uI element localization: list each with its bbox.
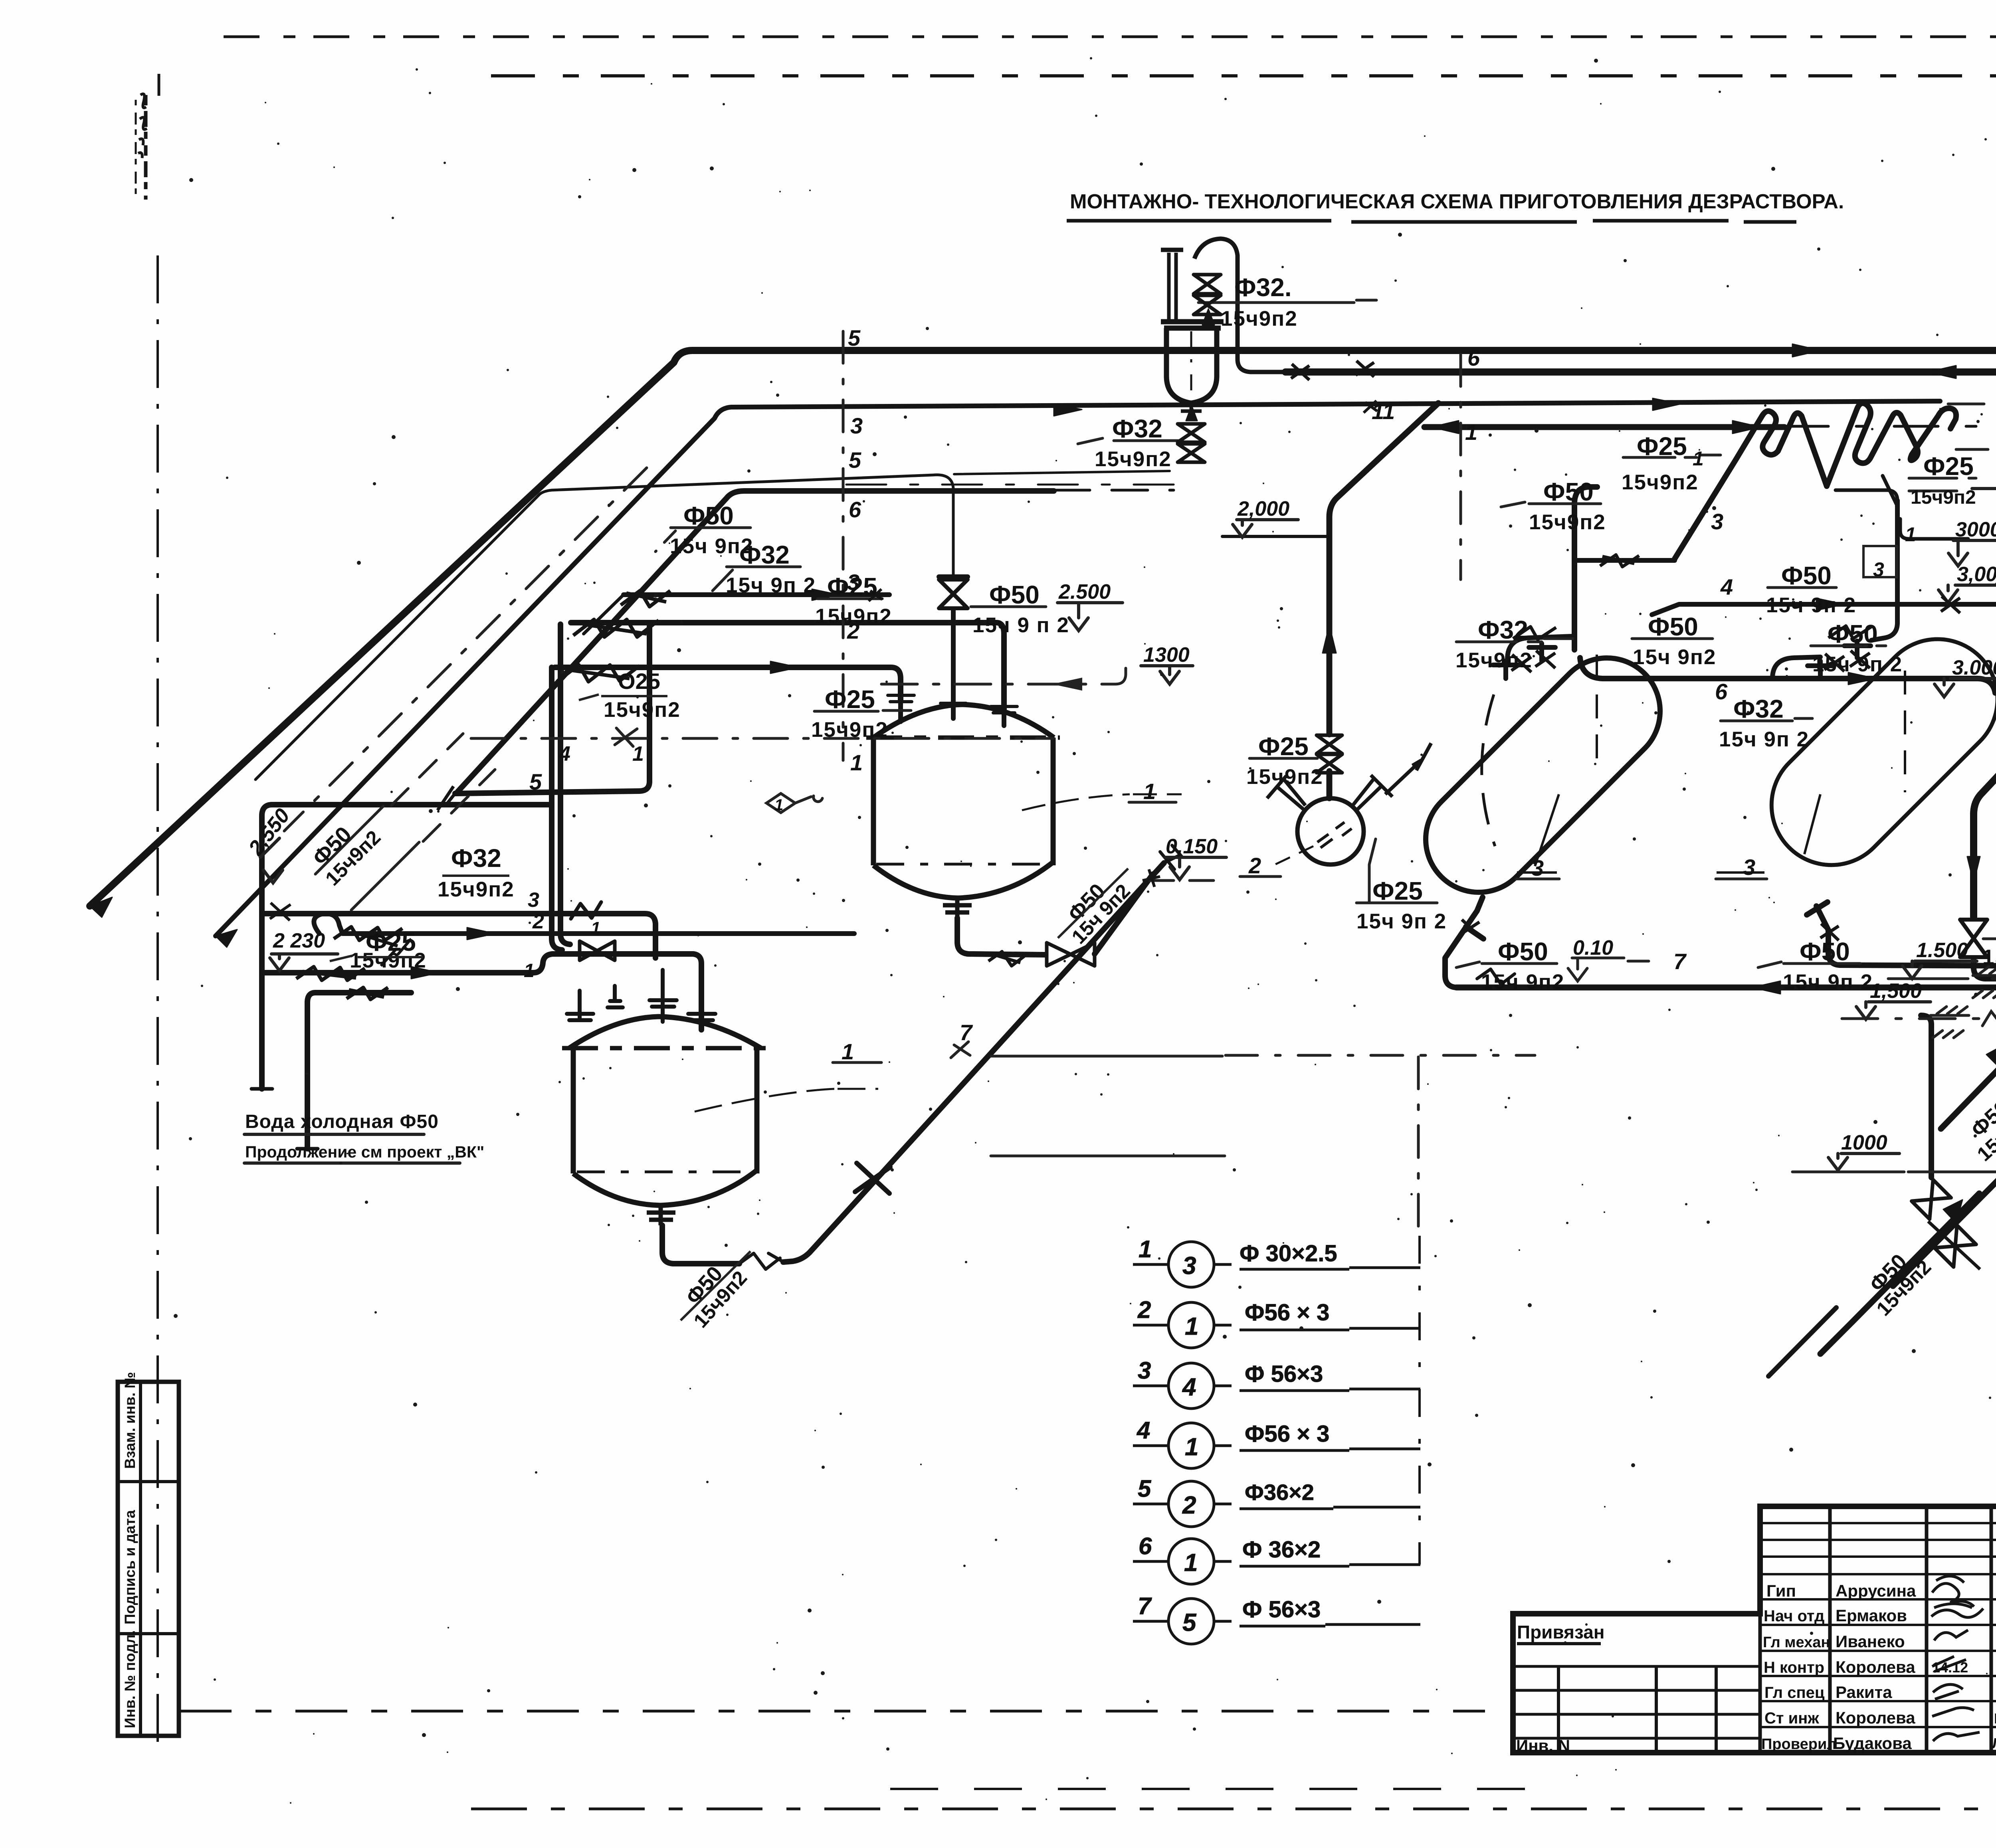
tank1 outlet valve horizontal (1047, 943, 1095, 966)
svg-text:Ф56 × 3: Ф56 × 3 (1245, 1421, 1329, 1447)
V1 shcheloch riser valve (1960, 920, 1987, 957)
svg-text:2,000: 2,000 (1237, 497, 1289, 520)
fraction bar phi32 funnel top (1198, 300, 1376, 303)
svg-text:Нач отд: Нач отд (1764, 1607, 1824, 1625)
y1401 line w break to diagonal (1574, 558, 1675, 563)
1-line y2437 with jog to valve and riser x1757 (264, 954, 701, 1030)
privyazan underline (1517, 1642, 1601, 1645)
svg-text:1.500: 1.500 (1916, 939, 1968, 962)
inner top dashed border (491, 74, 1996, 77)
svg-text:15ч 9п2: 15ч 9п2 (1633, 645, 1716, 669)
label 3 underlines cyl (1516, 878, 1767, 880)
elevation 0.100 collector (1568, 958, 1649, 981)
svg-text:Н контр: Н контр (1764, 1659, 1824, 1676)
small crossed marks on left lines (270, 903, 411, 966)
svg-text:5: 5 (849, 447, 861, 473)
line y1068 heavy (1424, 424, 1784, 430)
svg-text:Ф56 × 3: Ф56 × 3 (1245, 1300, 1329, 1326)
svg-text:15ч9п2: 15ч9п2 (604, 698, 681, 722)
svg-text:15ч9п2: 15ч9п2 (350, 949, 427, 972)
funnel bottom stub (1181, 403, 1202, 420)
tank2 label-1 underline (833, 1061, 881, 1064)
cyl A top left feed elbow (1507, 636, 1573, 659)
fraction bar phi25 funnel line (814, 710, 911, 711)
fraction bar phi25 pump (1249, 757, 1317, 760)
svg-text:Ф50: Ф50 (989, 580, 1040, 609)
svg-text:15ч9п2: 15ч9п2 (1095, 447, 1172, 471)
svg-text:Ф50: Ф50 (1648, 612, 1698, 641)
svg-text:Ракита: Ракита (1836, 1683, 1892, 1702)
svg-text:14.12: 14.12 (1932, 1659, 1968, 1676)
legend row 4 (1133, 1446, 1420, 1450)
marks near step line (1941, 596, 1960, 613)
svg-text:Ф50: Ф50 (1781, 561, 1832, 590)
svg-text:Ф32: Ф32 (1478, 615, 1528, 644)
svg-text:Ф25: Ф25 (1372, 877, 1423, 905)
main B1: the 3-line from LD2 across to the right (216, 401, 1940, 936)
left hook bottom tick (251, 1087, 272, 1091)
elevation 3.000 (1939, 585, 1996, 603)
svg-text:15ч 9п 2: 15ч 9п 2 (1356, 910, 1447, 933)
fraction bar phi50 collector left (1456, 962, 1557, 968)
svg-text:15ч9п2: 15ч9п2 (1529, 510, 1606, 534)
riser flow arrow (1323, 625, 1336, 653)
line 3-small left stub diagonal (584, 595, 624, 634)
7-diagonal long line from tank2 outlet up right (662, 863, 1164, 1264)
svg-text:5: 5 (1138, 1475, 1152, 1502)
cyl A top pipes and stubs (1493, 643, 1555, 679)
outer top dashed border (224, 36, 1996, 38)
title underline (1067, 221, 1796, 222)
measuring funnel tank (top) tube (1169, 253, 1176, 322)
svg-text:15ч 9п 2: 15ч 9п 2 (1812, 653, 1903, 676)
funnel tube cap (1161, 248, 1183, 252)
valve on 1-line jog (580, 941, 615, 960)
elbow to cyl B top (1977, 679, 1995, 693)
svg-text:7: 7 (1138, 1593, 1152, 1619)
tank 2 body (573, 1048, 757, 1173)
tank 2 bottom nozzle (647, 1205, 675, 1225)
svg-text:Ф25: Ф25 (825, 685, 875, 714)
tank1 label-1 underline (1129, 801, 1176, 804)
svg-text:Ф32: Ф32 (1733, 694, 1784, 723)
pump leader to label 2 (1267, 846, 1313, 868)
7-diagonal lower break symbol (739, 1253, 784, 1269)
shcheloch bottom diagonal with valve stub (1820, 1193, 1979, 1354)
svg-text:1,500: 1,500 (1870, 979, 1922, 1003)
svg-text:6: 6 (1467, 345, 1480, 370)
tank 1 (reactor vessel, item 1, upper) dome (873, 704, 1054, 738)
svg-text:15ч9п2: 15ч9п2 (1221, 307, 1298, 330)
elevation 3.000 lower (1935, 679, 1996, 697)
bottom short dash segment (890, 1788, 1533, 1790)
svg-text:1: 1 (774, 796, 783, 814)
legend row 5 (1133, 1504, 1420, 1509)
tank1 feed valve (939, 580, 968, 608)
svg-text:1: 1 (1465, 419, 1477, 445)
fraction bar phi50 right upper (1811, 645, 1886, 647)
svg-text:Ф32: Ф32 (739, 540, 790, 569)
line y1669 to tank1 left nozzle (555, 667, 901, 702)
names table top narrow rows (1760, 1523, 1996, 1557)
end mark of line y1985 left (438, 786, 455, 810)
svg-text:Ф25: Ф25 (1923, 452, 1974, 481)
svg-text:4: 4 (1137, 1417, 1150, 1444)
elevation 1300 (1141, 666, 1193, 684)
svg-text:Ф 56×3: Ф 56×3 (1245, 1361, 1323, 1387)
svg-text:2: 2 (532, 910, 544, 933)
svg-text:15ч9п2: 15ч9п2 (811, 718, 888, 742)
elevation 3.150 with up arrow (1972, 489, 1996, 523)
svg-text:2: 2 (1182, 1492, 1196, 1519)
svg-text:Ст инж: Ст инж (1764, 1709, 1819, 1727)
tick on 7 diag at x2888 junction (1143, 869, 1160, 887)
title block outer frame (1513, 1506, 1996, 1753)
step line 4 (1652, 604, 1996, 615)
elevation 0.150 (1165, 857, 1226, 880)
svg-text:2 230: 2 230 (273, 929, 325, 952)
cylinder B leader 3 (1717, 794, 1820, 873)
svg-text:3: 3 (1711, 509, 1723, 534)
dashed leaders in left diagonal bundle (391, 734, 495, 841)
3-line break (571, 902, 601, 919)
svg-text:3: 3 (1531, 855, 1544, 880)
svg-text:5: 5 (848, 325, 861, 350)
2-line y2339 with loop curl (314, 914, 854, 934)
svg-text:4: 4 (1182, 1373, 1196, 1401)
fraction bar phi32 mid (1721, 718, 1812, 721)
elevation 2.500 (1057, 603, 1123, 631)
svg-text:Вода холодная Ф50: Вода холодная Ф50 (245, 1111, 439, 1132)
tank1 outlet valve to 7-diagonal junction (1095, 874, 1153, 954)
svg-text:15ч 9п2: 15ч 9п2 (1481, 970, 1564, 994)
tank1 nozzle flange ticks (888, 695, 1017, 713)
svg-text:Инв. № подл.: Инв. № подл. (122, 1630, 138, 1728)
funnel body bowl (1166, 328, 1217, 403)
fraction bar phi25 below pump (1356, 839, 1437, 903)
valve marks on cylB top (1824, 651, 1870, 671)
collector left riser to cyl A bottom (1445, 897, 1483, 987)
fraction bar phi25 mid (818, 598, 882, 600)
svg-text:Гип: Гип (1766, 1581, 1796, 1600)
bottom collector y2472 (1456, 985, 1996, 991)
shcheloch heavy diagonal pair (1893, 976, 1996, 1286)
svg-text:Подпись и дата: Подпись и дата (122, 1510, 138, 1624)
svg-text:Ф32: Ф32 (1112, 414, 1162, 443)
tank 2 bottom seam dash (577, 1171, 754, 1173)
tank 1 leader to label 1 (1022, 794, 1182, 810)
svg-text:1: 1 (632, 742, 644, 766)
funnel lower valve pair (1178, 424, 1205, 442)
svg-text:О25: О25 (618, 669, 660, 694)
svg-text:3,000: 3,000 (1957, 563, 1996, 586)
pump inlet stub right (1353, 775, 1392, 810)
fraction bar phi50 shcheloch (1983, 938, 1996, 940)
svg-text:2.500: 2.500 (1058, 580, 1111, 603)
svg-text:15ч 9п 2: 15ч 9п 2 (726, 574, 816, 597)
shcheloch diag arrows (1943, 1044, 1996, 1223)
fraction bar phi32 cylA top (1456, 639, 1573, 642)
svg-text:7: 7 (1673, 949, 1687, 974)
svg-text:Ко !: Ко ! (1994, 1710, 1996, 1727)
main B1 arrowheads (216, 398, 1681, 947)
cyl B top stubs (1808, 641, 1871, 679)
cylinder A inner cap arc (1482, 694, 1495, 846)
svg-text:1: 1 (850, 750, 863, 775)
main B2 left arrowhead (1928, 366, 1956, 378)
funnel overflow pipe up and right riser (1194, 239, 1285, 372)
svg-text:15ч 9п 2: 15ч 9п 2 (1766, 594, 1856, 617)
svg-text:6: 6 (849, 497, 861, 522)
dash-dot axis vertical x3553 upper (1417, 1057, 1420, 1234)
bottom dashed border lower (471, 1808, 1996, 1810)
svg-text:Ф32: Ф32 (451, 844, 501, 873)
line C thin from left diagonal to tank1 feed vertical (255, 475, 953, 780)
marks on collector ends (1461, 920, 1839, 940)
small box near 1-3 labels (1863, 546, 1897, 577)
fraction bar phi50 cylA mid (1501, 502, 1601, 507)
cylinder A end seam dash (1596, 655, 1598, 770)
collector right riser to cyl B bottom (1807, 902, 1996, 987)
svg-text:Ф32.: Ф32. (1234, 273, 1292, 302)
funnel flange (1161, 322, 1224, 328)
svg-text:4: 4 (558, 742, 570, 766)
pump (item 2) casing circle (1297, 798, 1364, 865)
line C thin continuation right (954, 471, 1170, 474)
svg-text:Ф50: Ф50 (1543, 477, 1594, 506)
funnel center dash (1190, 331, 1192, 401)
v3 vertical from y1557 down to y1985 (455, 623, 649, 793)
shcheloch 2% ground line (1888, 977, 1996, 980)
legend row 3 (1133, 1386, 1420, 1391)
svg-text:Лл1: Лл1 (1992, 1735, 1996, 1751)
line 3-small y1486 (624, 592, 889, 597)
svg-text:15ч9п2: 15ч9п2 (1911, 487, 1976, 508)
dash-dot line y1848 (471, 737, 1054, 740)
svg-text:Будакова: Будакова (1833, 1734, 1912, 1753)
svg-text:Ф 36×2: Ф 36×2 (1242, 1537, 1321, 1563)
svg-text:Аррусина: Аррусина (1836, 1581, 1916, 1600)
cylinder A leader 3 (1517, 794, 1559, 873)
tank 1 bottom seam dash (876, 863, 1052, 866)
pump inlet stub left (1267, 776, 1305, 810)
fraction bar phi60 step (1768, 586, 1836, 589)
svg-text:15ч 9 п 2: 15ч 9 п 2 (972, 613, 1069, 637)
svg-text:Ф50: Ф50 (683, 501, 734, 530)
svg-text:1: 1 (1185, 1433, 1198, 1461)
line y1557 with elbow down v3 and return along y1985 (571, 623, 1004, 713)
hatch marks upper set (1973, 967, 1996, 975)
svg-text:6: 6 (1715, 679, 1728, 704)
svg-text:15ч 9п 2: 15ч 9п 2 (1719, 728, 1809, 751)
svg-text:3000: 3000 (1955, 518, 1996, 541)
main A arrowheads (90, 344, 1996, 917)
funnel top valve pair (1194, 275, 1221, 294)
dash-dot diagonal centerline in left bundle (284, 468, 647, 831)
svg-text:0.10: 0.10 (1573, 936, 1613, 960)
elevation 2.000 (1233, 520, 1298, 537)
elevation 1.500 upper (1903, 961, 1977, 979)
svg-text:1: 1 (524, 960, 535, 981)
svg-text:Гл спец: Гл спец (1764, 1684, 1825, 1702)
legend right dashed vertical (1418, 1236, 1421, 1565)
compensator loop 2 (lightning) (1827, 403, 1956, 486)
cylinder B seam dash (1904, 671, 1906, 792)
fraction bars rotated left bundle (315, 806, 419, 910)
legend row 7 (1133, 1621, 1420, 1626)
svg-text:1: 1 (1185, 1313, 1198, 1340)
tank 2 bottom dish (573, 1170, 757, 1205)
label 7 top tick (951, 1042, 970, 1058)
riser below valve to pump (1327, 771, 1333, 798)
legend row 1 (1133, 1264, 1420, 1269)
svg-text:4: 4 (1720, 574, 1733, 600)
pump vent line with break (1385, 743, 1431, 794)
elevation 3000 (1948, 540, 1996, 566)
fraction bar phi50 top mid (1632, 637, 1713, 640)
svg-text:Ф50: Ф50 (1498, 937, 1548, 966)
svg-text:Ф25: Ф25 (1637, 432, 1687, 461)
svg-text:Ф 56×3: Ф 56×3 (1242, 1597, 1321, 1622)
riser diagonal from B1 down to pump (1329, 403, 1438, 734)
fraction bar phi25 zigzag (1909, 478, 1976, 491)
thin dash between C and D (846, 484, 1190, 486)
svg-text:1: 1 (591, 918, 600, 938)
tank1 dome riser stubs (901, 702, 1004, 726)
2.000 elevation line to riser (1222, 535, 1329, 538)
svg-text:3: 3 (847, 570, 859, 595)
tank 1 flange line (866, 736, 1060, 740)
svg-text:3: 3 (528, 888, 539, 912)
long dash line y1012 right (1948, 403, 1996, 406)
svg-text:15ч9п2: 15ч9п2 (1246, 765, 1323, 789)
tank1 outlet run to valve and 7-diagonal (957, 918, 1045, 955)
7-diagonal valve X lower left (855, 1163, 890, 1193)
svg-text:Проверил: Проверил (1761, 1736, 1836, 1753)
main B2: funnel riser run to RD1 and riser V1 (1285, 372, 1996, 917)
cyl A right top outlet to the 6-line (1580, 658, 1977, 679)
handwriting top-left vertical (144, 95, 148, 200)
svg-text:Иванеко: Иванеко (1836, 1632, 1905, 1651)
svg-text:1: 1 (1184, 1549, 1198, 1577)
svg-text:Ф36×2: Ф36×2 (1245, 1480, 1314, 1505)
left hook2 bottom tick (297, 1147, 318, 1151)
svg-text:15ч9п2: 15ч9п2 (1455, 649, 1533, 672)
svg-text:Продолжение см проект „ВК": Продолжение см проект „ВК" (245, 1143, 484, 1161)
diamond flag 1 (766, 793, 795, 813)
vertical drop from loop area to cylB top (1871, 501, 1897, 640)
names table verticals (1760, 1506, 1996, 1753)
tank2 left nozzle elbow (567, 986, 623, 1020)
shcheloch 10% line (1842, 1017, 1996, 1020)
vertical pair v1 v2 (552, 667, 562, 950)
valve marks on cylA top (1511, 651, 1555, 672)
line D (6-line) with its left diagonal LD3 (457, 491, 1054, 792)
svg-text:Инв. N: Инв. N (1516, 1736, 1570, 1755)
bottom assembly valve (1935, 1225, 1976, 1267)
names table row lines (1760, 1574, 1996, 1727)
legend row 2 (1133, 1325, 1420, 1330)
floor line y2642 (991, 1055, 1222, 1058)
funnel top flow arrow (1202, 309, 1214, 325)
legend row 6 (1133, 1561, 1420, 1566)
svg-text:Ф50: Ф50 (1828, 619, 1878, 648)
shcheloch vertical V1 lower part with elbow to ground line (1974, 958, 1996, 979)
svg-text:3: 3 (1743, 855, 1755, 880)
y2016 hook line and x655 vertical (262, 805, 552, 1089)
svg-text:3.000: 3.000 (1952, 656, 1996, 679)
shcheloch lower-left end diagonal to label (1768, 1308, 1836, 1376)
main A: top long run with left diagonal LD1 and right diagonal RD2 to riser V2 (90, 350, 1996, 976)
svg-text:Ермаков: Ермаков (1836, 1606, 1907, 1625)
cyl B top feed elbow from left (1772, 657, 1820, 679)
left frame dash-dot vertical (156, 255, 159, 1752)
line y1068 dash continuation (1784, 425, 1996, 428)
pump internal scribbles (1317, 822, 1352, 848)
svg-text:МОНТАЖНО- ТЕХНОЛОГИЧЕСКАЯ СХЕМ: МОНТАЖНО- ТЕХНОЛОГИЧЕСКАЯ СХЕМА ПРИГОТОВ… (1070, 190, 1844, 213)
2.550 rotated mark left (260, 838, 283, 883)
svg-text:7: 7 (960, 1020, 973, 1045)
cylinder tank A (item 3, left) capsule (1404, 636, 1682, 914)
svg-text:Ф25: Ф25 (1258, 732, 1309, 761)
svg-text:Ф50: Ф50 (1800, 937, 1850, 966)
svg-text:1: 1 (1693, 447, 1704, 470)
thin floor line lower (991, 1155, 1225, 1157)
svg-text:15ч9п2: 15ч9п2 (1622, 471, 1699, 494)
svg-text:11: 11 (1372, 399, 1395, 424)
elevation 1.500 lower (1856, 1002, 1931, 1019)
svg-text:3: 3 (1182, 1252, 1196, 1280)
svg-text:2: 2 (847, 618, 859, 643)
svg-text:2: 2 (1248, 853, 1261, 878)
valve marks above funnel right (1291, 361, 1374, 380)
svg-text:5: 5 (529, 769, 542, 794)
svg-text:6: 6 (1139, 1533, 1152, 1559)
corner from vertical to left horizontal (1836, 490, 1897, 501)
svg-text:15ч9п2: 15ч9п2 (1982, 946, 1996, 969)
compensator loop 1 (lightning) (1675, 411, 1827, 559)
svg-text:Ф 30×2.5: Ф 30×2.5 (1240, 1241, 1337, 1266)
y2487 short line with hook x770 (307, 993, 411, 1149)
pump suction valve pair (1317, 735, 1342, 754)
fraction bar phi25 right (1623, 455, 1721, 457)
svg-text:3: 3 (850, 413, 863, 438)
3-line y2289 to tank2 riser (264, 914, 655, 958)
svg-text:Королева: Королева (1836, 1658, 1915, 1676)
svg-text:3: 3 (1138, 1357, 1151, 1384)
vodka text underlines (244, 1134, 460, 1163)
svg-text:1300: 1300 (1143, 643, 1190, 667)
svg-text:Гл механ: Гл механ (1763, 1634, 1830, 1651)
tank 2 leader to label 1 (695, 1089, 878, 1112)
shcheloch 10% drop vertical (1929, 1024, 1934, 1177)
riser x1757 flanges (688, 1014, 715, 1020)
V1 down arrow (1967, 857, 1980, 883)
signature squiggles (1932, 1576, 1974, 1607)
elbow y1348 to the right (1883, 476, 1968, 539)
privyazan block lines (1513, 1666, 1760, 1738)
fraction bar phi32 funnel lower (1078, 438, 1182, 444)
tank1 feed vertical below valve (939, 577, 968, 710)
tank 2 flange line (562, 1046, 767, 1051)
dash-dot axis vertical at x2110 (842, 331, 845, 760)
dash-dot axis vertical at x3659 (1459, 354, 1462, 580)
svg-text:0,150: 0,150 (1166, 835, 1218, 858)
valve at 10% drop bottom (1912, 1180, 1951, 1219)
fraction bar phi50 collector right (1758, 962, 1860, 968)
tank 1 bottom nozzle (943, 898, 972, 918)
fraction bar phi32 left (713, 567, 800, 591)
